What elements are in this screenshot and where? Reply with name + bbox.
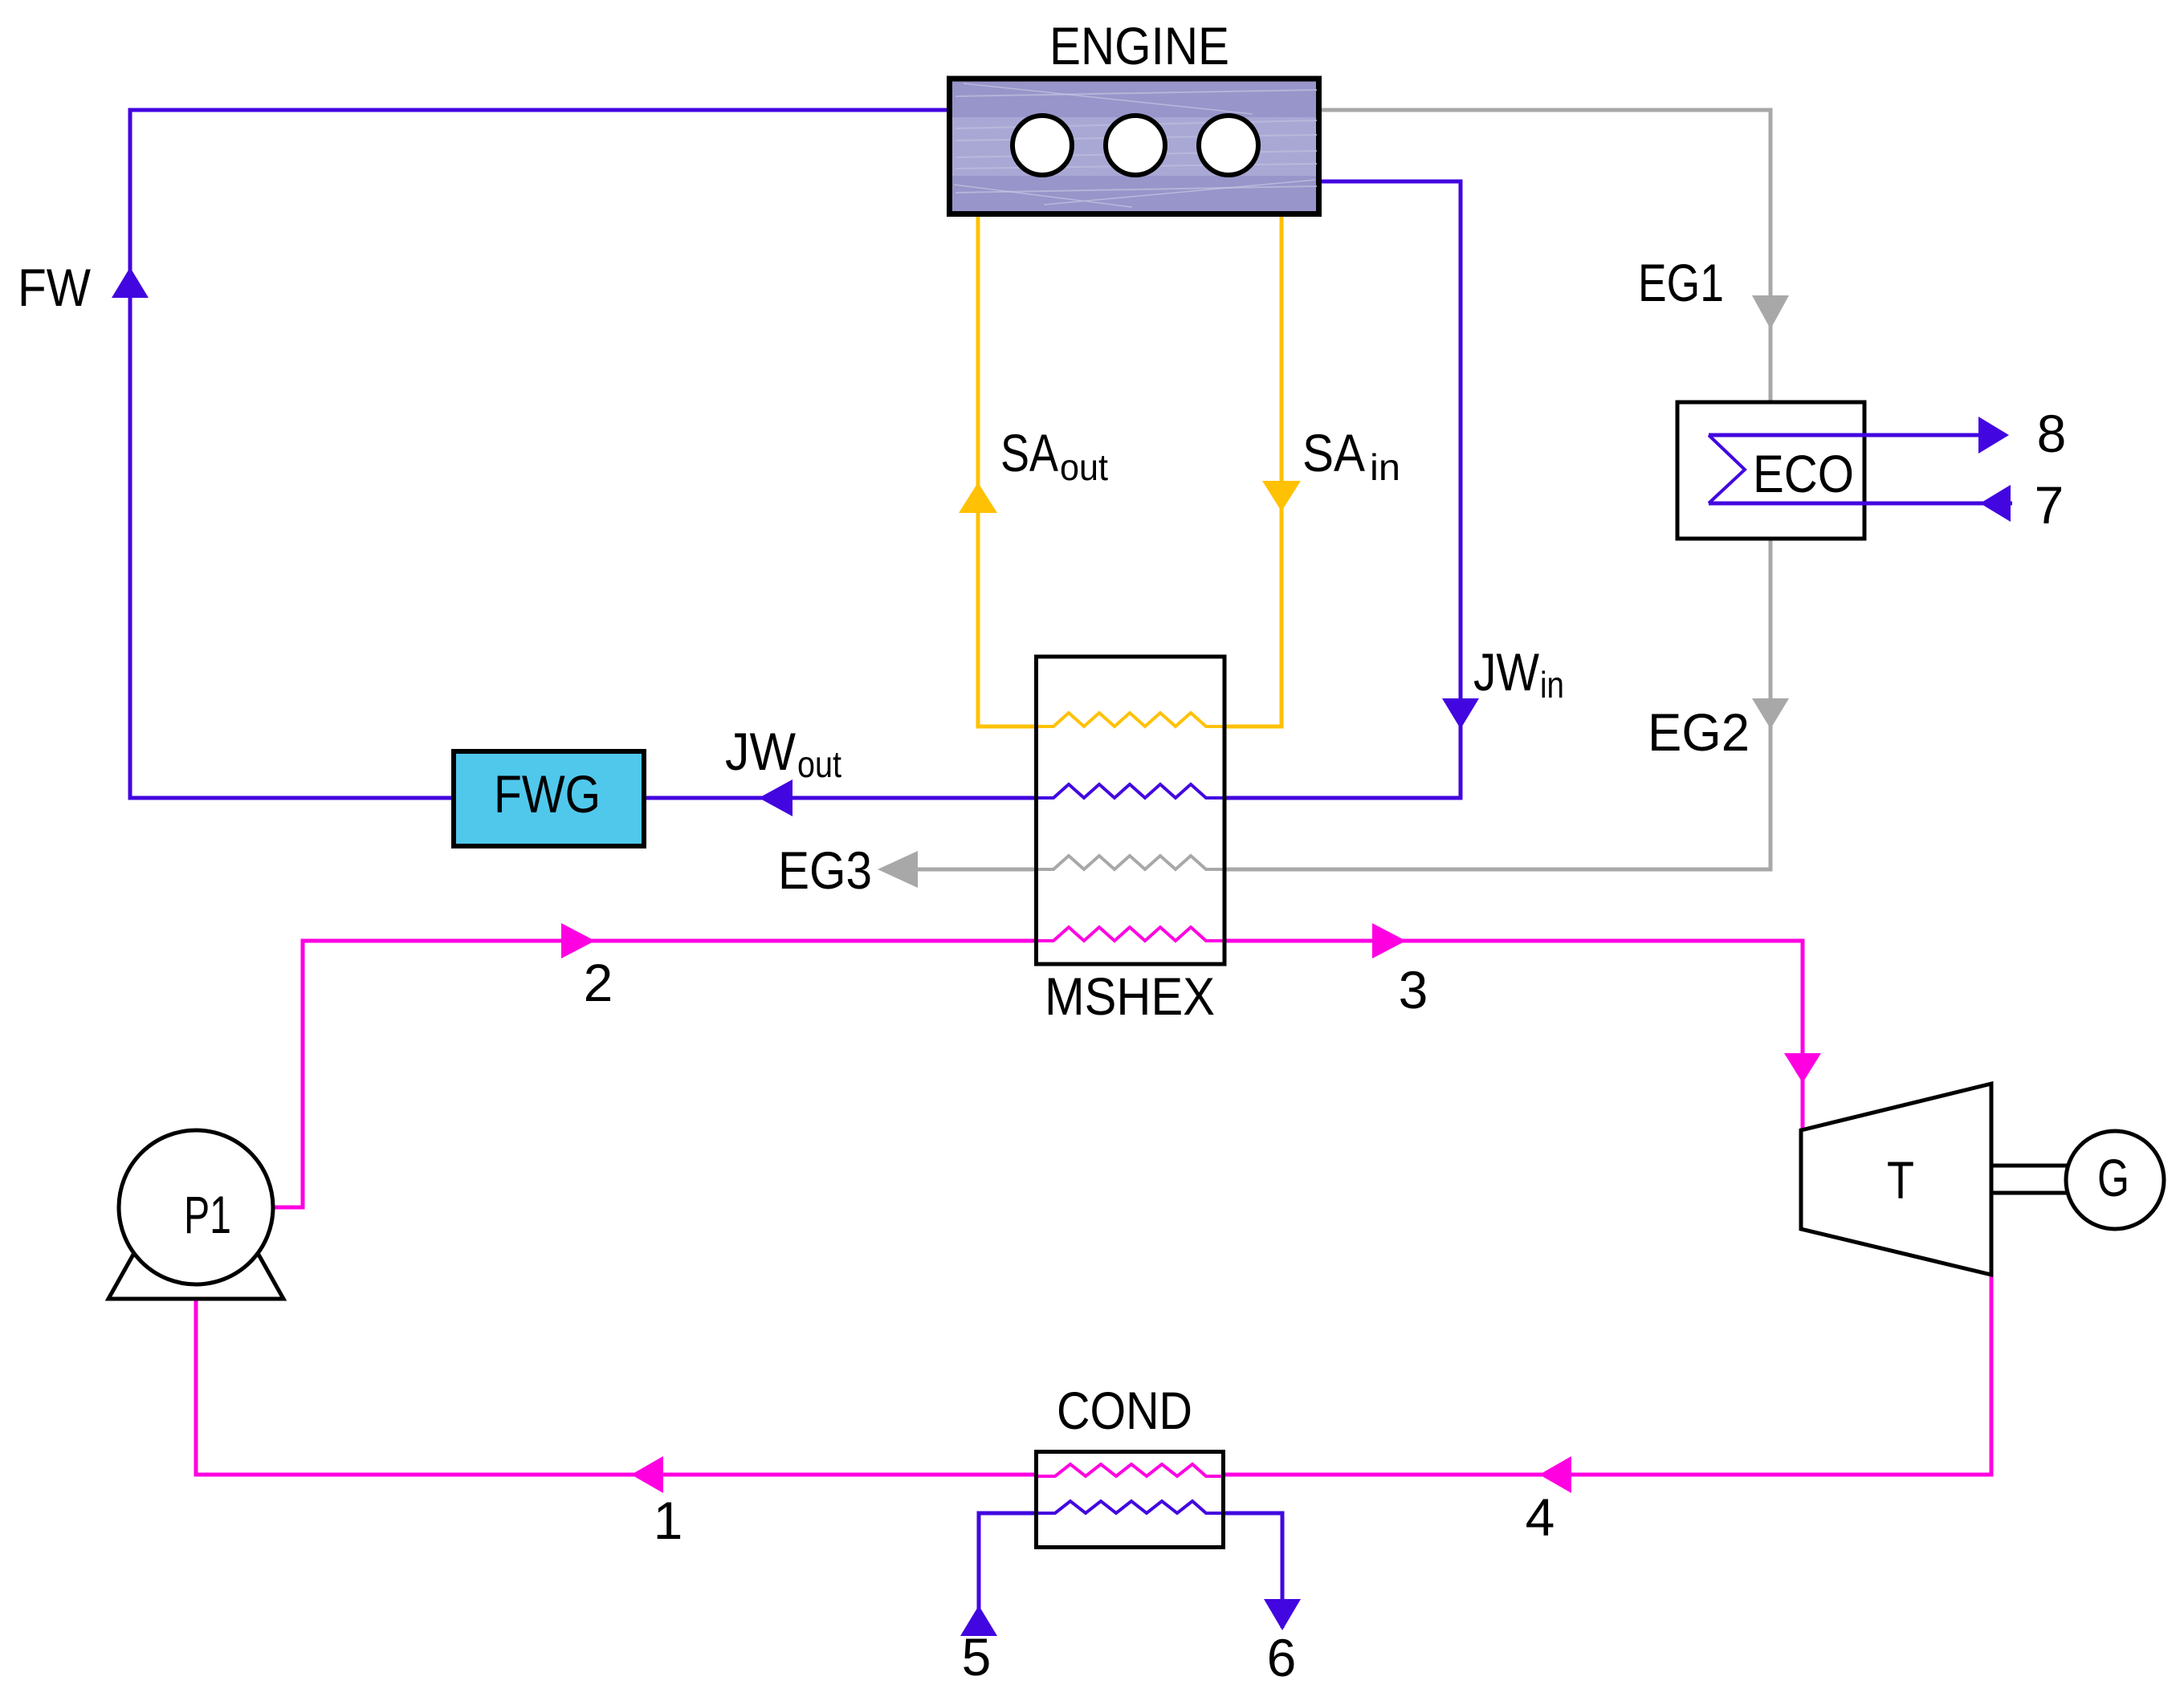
svg-text:EG1: EG1 [1638, 253, 1724, 312]
svg-text:EG2: EG2 [1648, 702, 1750, 762]
svg-text:6: 6 [1267, 1628, 1297, 1687]
svg-text:T: T [1887, 1150, 1914, 1210]
svg-text:out: out [1060, 446, 1108, 488]
svg-text:2: 2 [584, 953, 613, 1012]
svg-text:G: G [2097, 1148, 2129, 1207]
svg-text:4: 4 [1526, 1487, 1555, 1547]
svg-text:SA: SA [1000, 423, 1058, 482]
svg-text:COND: COND [1057, 1381, 1192, 1440]
svg-text:ENGINE: ENGINE [1049, 16, 1229, 75]
svg-text:FW: FW [18, 258, 92, 317]
svg-text:FWG: FWG [494, 764, 601, 824]
svg-text:3: 3 [1399, 960, 1428, 1019]
svg-text:7: 7 [2035, 475, 2064, 535]
svg-text:5: 5 [962, 1627, 992, 1687]
svg-text:1: 1 [654, 1491, 683, 1550]
svg-text:EG3: EG3 [778, 840, 872, 900]
svg-text:in: in [1540, 664, 1564, 706]
svg-text:SA: SA [1302, 423, 1365, 482]
svg-text:ECO: ECO [1753, 444, 1854, 503]
svg-text:P1: P1 [184, 1185, 231, 1244]
svg-text:8: 8 [2037, 404, 2067, 463]
svg-text:MSHEX: MSHEX [1045, 966, 1215, 1026]
svg-text:JW: JW [1473, 642, 1540, 702]
svg-text:JW: JW [725, 722, 797, 781]
svg-text:in: in [1370, 446, 1400, 488]
svg-text:out: out [797, 743, 841, 785]
